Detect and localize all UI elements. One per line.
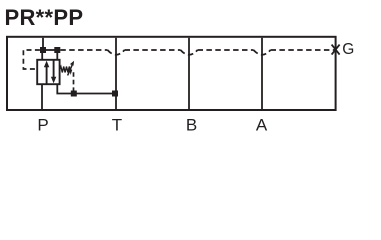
adjustment arrow through spring (68, 61, 75, 76)
wire P top stub (42, 38, 44, 48)
wire drain to T (57, 84, 115, 93)
pressure reducing valve V1 body (37, 60, 59, 84)
svg-text:PR**PP: PR**PP (5, 5, 84, 30)
gauge line G (dashed) segment 2 (125, 49, 181, 51)
node junction J1 (40, 47, 46, 53)
wire J2 to valve top (56, 53, 58, 60)
gauge line hop over B (181, 50, 198, 55)
spring (adjustable) of valve V1 (60, 67, 72, 73)
valve V1 flow arrow down (51, 60, 56, 83)
line T (115, 38, 117, 109)
line A (261, 38, 263, 109)
wire J1 to valve inlet (41, 53, 43, 60)
line B (188, 38, 190, 109)
valve V1 flow arrow up (44, 61, 49, 84)
gauge line G (dashed) segment 4 (271, 49, 335, 51)
drain pilot line (dashed) from spring (73, 72, 75, 91)
gauge line G (dashed) segment 1 (60, 49, 107, 51)
svg-text:P: P (37, 115, 48, 134)
svg-text:A: A (256, 115, 268, 134)
gauge line G (dashed) segment 3 (198, 49, 254, 51)
pilot line (dashed) sensing hook (23, 50, 40, 69)
wire P bottom stub (41, 84, 43, 109)
svg-text:G: G (342, 41, 354, 58)
wire P node link (43, 49, 57, 51)
node junction J2 (54, 47, 60, 53)
gauge line hop over T (108, 50, 125, 55)
node junction J3 (71, 91, 77, 97)
valve body outline (module envelope) (7, 37, 336, 110)
svg-text:B: B (186, 115, 197, 134)
node junction J4 (112, 91, 118, 97)
svg-text:T: T (112, 115, 122, 134)
gauge line hop over A (254, 50, 271, 55)
plugged port X symbol (332, 45, 340, 55)
